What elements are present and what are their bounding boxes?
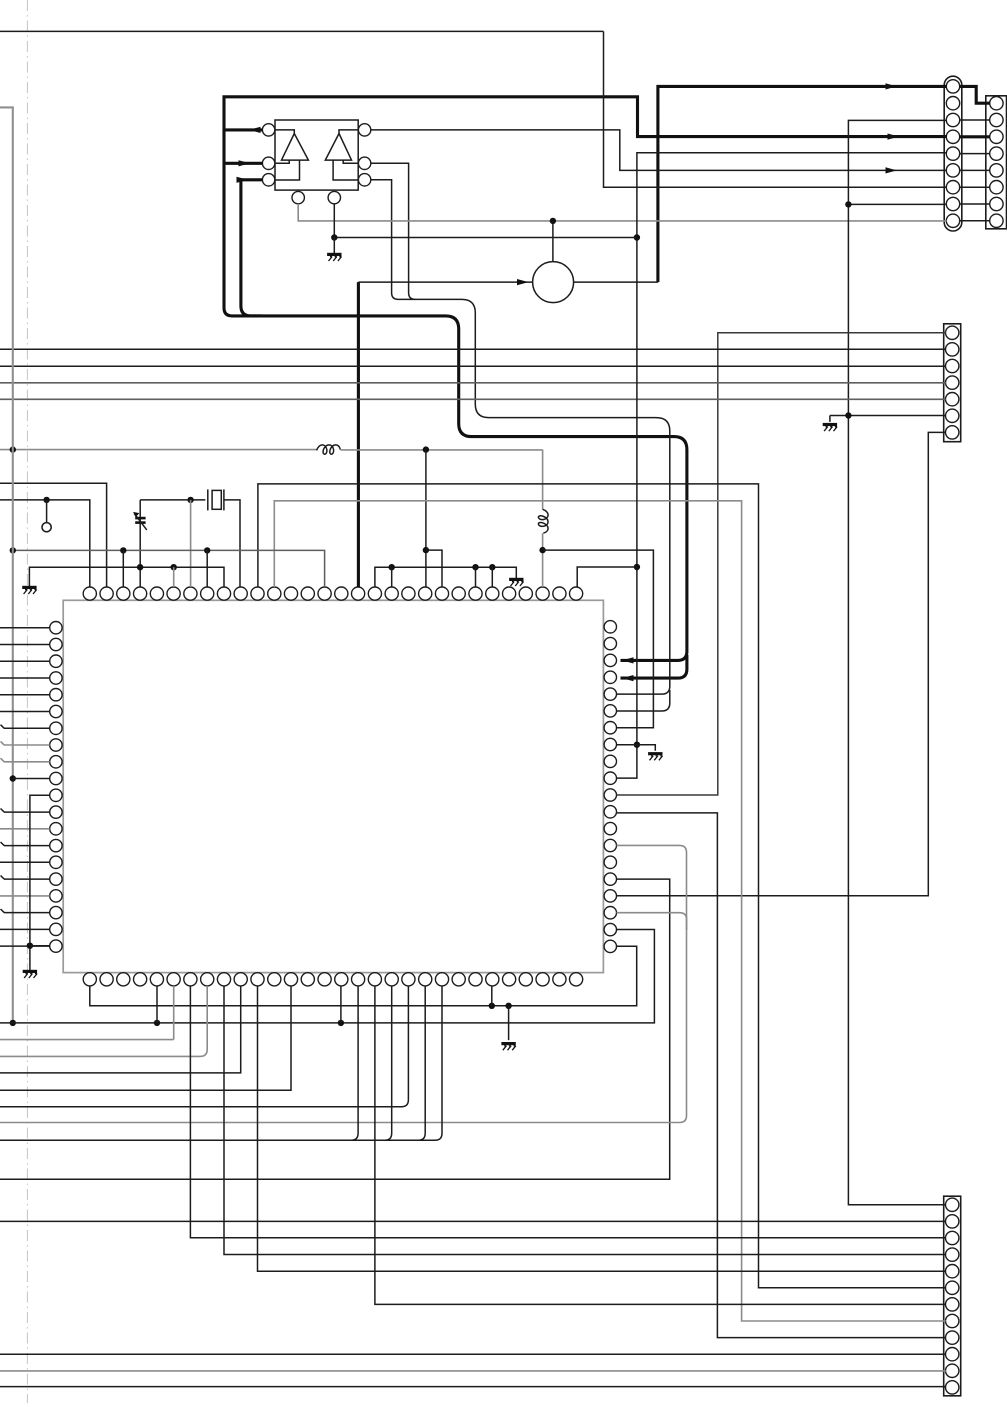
wire rail with inductor L1 — [0, 445, 543, 454]
wire net x637: CN1 pin5, opamp B2, T30, R8, R10 — [617, 153, 947, 778]
gray bus left x13 — [0, 107, 16, 1026]
trimmer capacitor C1 — [133, 500, 147, 587]
connector CN3 pins — [946, 326, 959, 439]
wire branch ic R8 to ground — [617, 745, 656, 751]
ground G5 — [501, 1044, 515, 1051]
ic U1 body — [63, 600, 603, 972]
connector CN4 shell (bottom right) — [944, 1196, 961, 1396]
crystal X1 — [208, 489, 240, 587]
connector CN1 pins — [946, 80, 959, 228]
motor M1 circle — [533, 262, 574, 303]
connector CN3 shell (mid right) — [944, 324, 961, 442]
ground G3 — [648, 754, 662, 761]
wire ic R20 rail 1006 (B1 B25 gnd taps) — [90, 946, 637, 1040]
wire rail to CN3 pin4 — [0, 382, 946, 384]
wire branch ic T30 — [577, 567, 637, 587]
wire branch to CN1 pin8 — [845, 201, 946, 207]
wire T22 branch — [426, 550, 442, 587]
wire ic R14 down to left edge rail 1122 — [0, 845, 687, 1122]
wire op-amp out1 to CN1 pin4 (thick) — [224, 97, 947, 140]
wire rail to CN4 pin11 (gray) — [0, 1370, 946, 1372]
wire ic R17 to CN3 pin7 — [617, 432, 946, 895]
wire left rail to ic T2 — [0, 483, 107, 587]
connector CN2 shell (top far right) — [986, 96, 1007, 229]
wire rail to CN3 pin3 — [0, 365, 946, 367]
ic U1 right pins — [604, 621, 616, 953]
wire L2 tap to x653 vertical — [543, 550, 654, 728]
wire motor feed with arrow — [358, 279, 532, 285]
wire B8 to left edge (gray) — [0, 986, 207, 1057]
ground G2 — [509, 579, 523, 586]
wire op-amp out1R to CN1 pin6 — [371, 130, 947, 174]
wire thin branch to ic R6 — [617, 690, 670, 711]
connector CN2 pins — [990, 97, 1003, 228]
wire CN3 pin1 to ic R11 — [617, 333, 946, 795]
connector CN1 shell (top right) — [944, 76, 962, 231]
wire motor output to CN1 pin1 (thick) — [574, 83, 947, 282]
wire rail to CN4 pin10 — [0, 1353, 946, 1355]
op-amp U2 body and pins — [262, 120, 370, 204]
wire riser ic T21 — [423, 450, 429, 587]
ground G4 — [823, 425, 837, 432]
ground G1 — [22, 587, 36, 594]
wire left rail to ic T1 with test point TP1 — [0, 497, 90, 587]
gray rail to ic T15 (T3 T8 taps) — [10, 547, 325, 587]
wire ic R18 joining — [617, 913, 687, 930]
wire riser ic T7 — [190, 500, 192, 587]
wire ic T11 up-over-down to CN4 pin6 — [258, 484, 946, 1288]
op-amp U2 left buffer internal leads — [275, 130, 300, 180]
ground G6 — [23, 971, 37, 978]
wire gray net op-amp pinB1 to CN1 pin9 — [298, 204, 946, 221]
ground rail right over ic (T18 T19 T24 T25) — [375, 564, 516, 587]
wire branch CN3 pin6 and ground — [830, 412, 946, 422]
wire ic R19 rail 1023 (B5 B16 taps) — [0, 930, 654, 1027]
wires ic left pins to page edge — [0, 628, 50, 946]
wire ic R12 to CN4 pin9 — [617, 813, 946, 1338]
wires CN1-CN2 links — [959, 120, 990, 221]
wire thick bus branch to ic R4 — [621, 655, 687, 681]
wire rail to CN3 pin5 — [0, 398, 946, 400]
wire ic R16 to left edge — [0, 879, 670, 1179]
wire B11 to CN4 pin5 — [258, 986, 946, 1271]
wire B20 to left edge — [0, 986, 408, 1107]
wire CN1 pin1 jog to CN2 pin1 — [959, 86, 990, 103]
wire B6 to left edge (gray) — [0, 986, 174, 1040]
wire B10 to left edge — [0, 986, 241, 1073]
wire B7 to CN4 pin3 — [190, 986, 945, 1238]
op-amp U2 right buffer triangle — [325, 134, 351, 161]
wire rail to CN3 pin2 — [0, 348, 946, 350]
wire B18 to CN4 pin7 — [375, 986, 946, 1305]
wire ic T12 up-over-down to CN4 pin8 (gray) — [274, 501, 946, 1321]
wire motor riser to ic pin T17 (thick) — [357, 282, 360, 587]
wire crystal net — [140, 497, 205, 503]
border rail top-left — [0, 30, 604, 32]
wire rail to CN4 pin12 — [0, 1386, 946, 1388]
op-amp U2 left buffer triangle — [282, 134, 309, 161]
wire branch opamp pinB2 — [331, 204, 637, 253]
wire op-amp out2/out3 to ic R5 — [371, 163, 670, 694]
wire B13 to left edge — [0, 986, 291, 1090]
ic U1 top pins 1-30 — [83, 587, 583, 600]
inductor L2 vertical — [538, 450, 548, 587]
ic U1 left pins — [50, 622, 62, 953]
wire top rail to CN1 pin7 — [604, 31, 947, 187]
op-amp U2 right buffer internal leads — [333, 130, 358, 180]
wire long net x848 CN1p3 to CN4p1 — [848, 120, 946, 1204]
wire B9 to CN4 pin4 — [224, 986, 946, 1255]
ic U1 bottom pins — [83, 973, 583, 986]
wire op-amp in bus thick down-right to ic R3 — [224, 130, 687, 664]
wire rail to CN4 pin2 — [0, 1220, 946, 1222]
ground G7 (op-amp) — [327, 254, 341, 261]
wire B17 B19 B21 B22 merged rail 1140 — [0, 986, 442, 1140]
ground rail left over ic (T4 T6 T9) — [29, 564, 224, 587]
wire motor-top tap — [550, 218, 556, 262]
page centerline (dash-dot) — [26, 0, 28, 1403]
wire ic L11-L20 ground — [27, 795, 50, 970]
connector CN4 pins — [946, 1198, 959, 1394]
wire branch ic L10 — [13, 778, 50, 780]
